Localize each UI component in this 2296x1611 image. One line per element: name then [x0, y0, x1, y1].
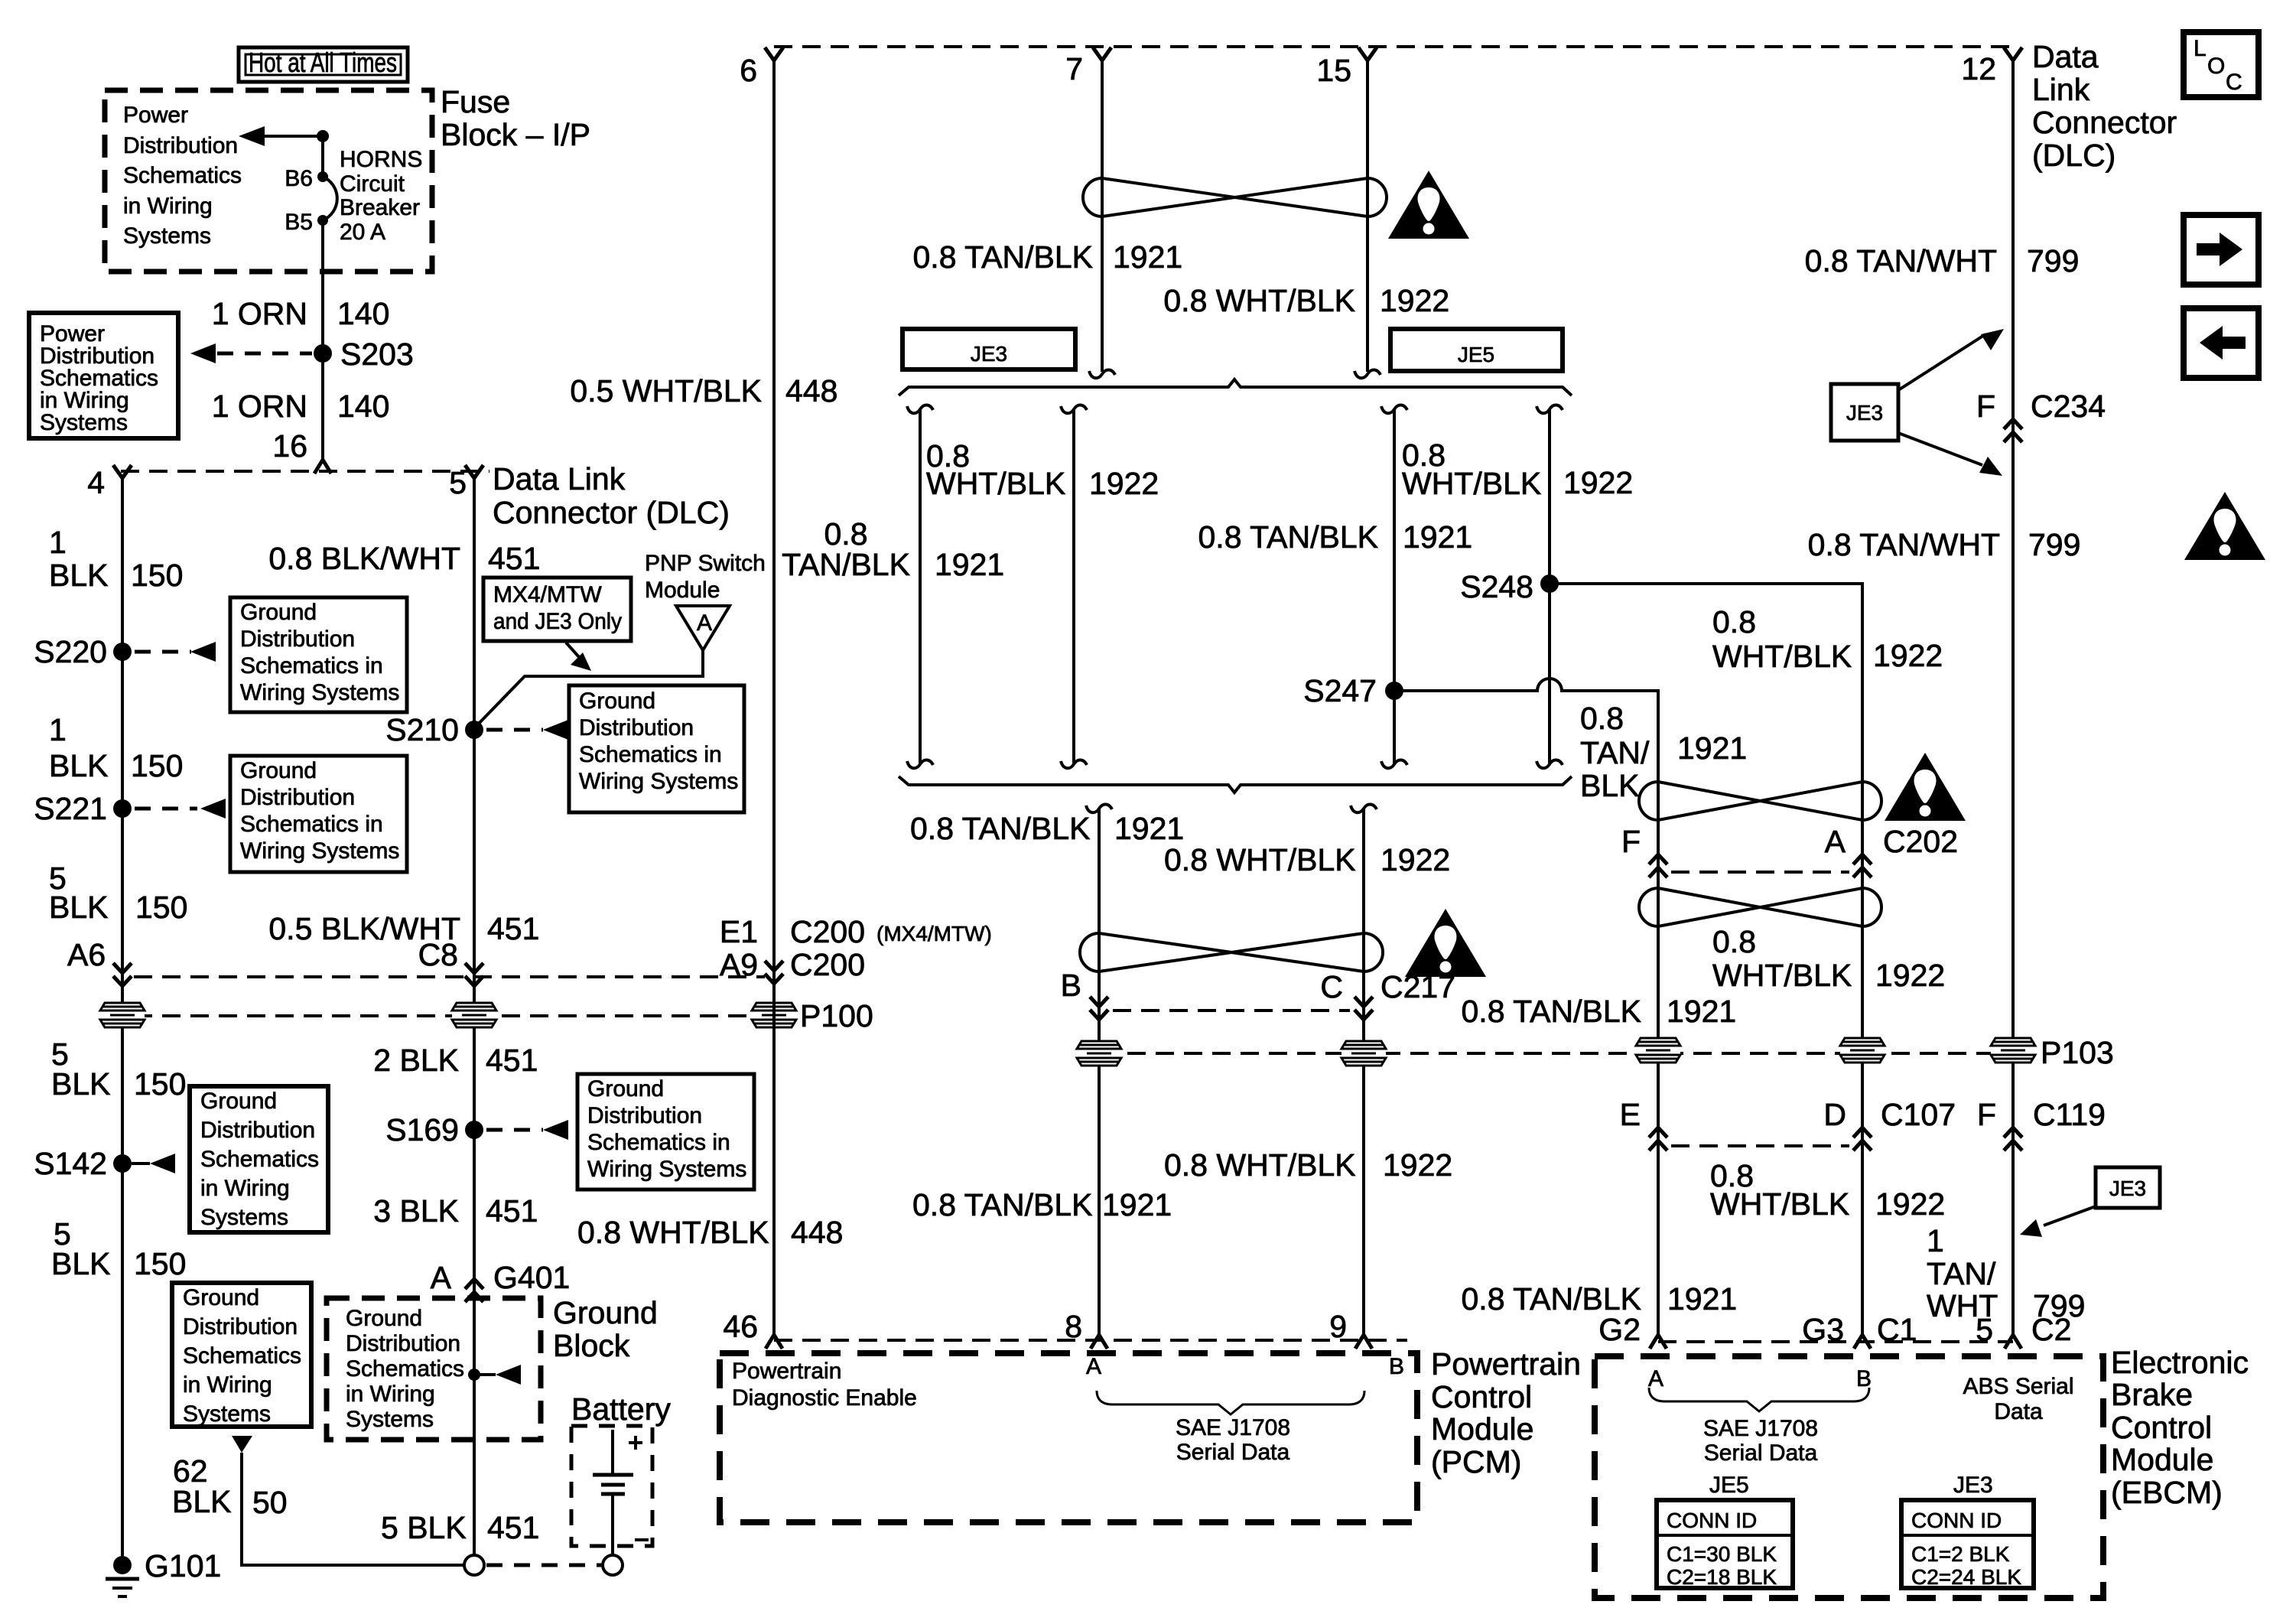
svg-text:799: 799 [2028, 527, 2080, 562]
splice code box JE3 (C234) [1831, 384, 1898, 441]
dashed reference from S220 [135, 642, 216, 662]
splice wire A (0.8 TAN/BLK 1921) [907, 405, 933, 768]
svg-text:46: 46 [723, 1309, 758, 1344]
splice S210 [385, 712, 483, 747]
wire 12 (799) down to EBCM C2 [2011, 60, 2015, 1335]
svg-text:JE5: JE5 [1709, 1473, 1749, 1498]
svg-text:Wiring Systems: Wiring Systems [240, 838, 399, 864]
svg-text:BLK: BLK [51, 1246, 111, 1281]
svg-text:Electronic: Electronic [2111, 1345, 2249, 1380]
svg-text:Systems: Systems [200, 1205, 288, 1230]
svg-text:Serial Data: Serial Data [1176, 1440, 1290, 1465]
svg-text:1922: 1922 [1383, 1147, 1452, 1183]
svg-text:1922: 1922 [1875, 1186, 1945, 1222]
twisted pair wires 8/9 [1080, 933, 1383, 971]
svg-text:0.8 TAN/BLK: 0.8 TAN/BLK [1462, 994, 1642, 1029]
warning triangle C202 [1885, 753, 1966, 821]
svg-text:in Wiring: in Wiring [200, 1176, 290, 1201]
svg-text:A9: A9 [720, 947, 758, 982]
svg-text:1922: 1922 [1380, 283, 1449, 318]
splice S247 [1303, 673, 1403, 708]
svg-text:A: A [697, 610, 712, 636]
svg-text:1 ORN: 1 ORN [212, 389, 307, 424]
svg-text:B: B [1389, 1354, 1404, 1379]
svg-text:A: A [431, 1260, 452, 1295]
svg-text:BLK: BLK [51, 1066, 111, 1102]
svg-text:A: A [1648, 1366, 1663, 1391]
wire 15 down to splice bus [1355, 60, 1381, 378]
svg-text:1922: 1922 [1563, 465, 1633, 500]
DLC lower boundary dashed line [134, 975, 765, 978]
pin G3 C1 EBCM [1802, 1312, 1917, 1349]
svg-text:0.8 WHT/BLK: 0.8 WHT/BLK [1164, 1147, 1356, 1183]
svg-text:in Wiring: in Wiring [346, 1382, 435, 1407]
svg-text:5: 5 [449, 465, 467, 500]
svg-text:Wiring Systems: Wiring Systems [240, 680, 399, 705]
svg-text:TAN/: TAN/ [1580, 735, 1650, 770]
reference arrow from S142 [132, 1154, 175, 1173]
svg-text:C202: C202 [1883, 824, 1958, 859]
svg-text:0.8 WHT/BLK: 0.8 WHT/BLK [577, 1215, 769, 1250]
svg-text:16: 16 [272, 428, 307, 464]
wire label 0.8 TAN/BLK 1921 (G2 lower) [1462, 1281, 1738, 1316]
warning triangle (top) [1388, 171, 1469, 239]
label ABS Serial Data [1963, 1374, 2073, 1424]
svg-text:12: 12 [1961, 51, 1996, 86]
svg-text:C1=30 BLK: C1=30 BLK [1667, 1542, 1777, 1566]
label Electronic Brake Control Module (EBCM) [2111, 1345, 2249, 1510]
svg-text:(DLC): (DLC) [2032, 138, 2116, 173]
svg-text:Data Link: Data Link [493, 461, 626, 496]
wire label 0.8 TAN/BLK 1921 (wire 8 lower) [912, 1187, 1172, 1222]
splice S220 [34, 634, 132, 669]
svg-text:Battery: Battery [571, 1391, 671, 1427]
splice S248 [1460, 569, 1559, 604]
dashed reference from S210 [486, 720, 568, 740]
svg-text:1921: 1921 [1114, 811, 1184, 846]
pin 12 connector [1961, 47, 2022, 86]
pin 15 connector [1316, 47, 1377, 88]
splice wire D (0.8 WHT/BLK 1922) [1537, 405, 1563, 768]
wire label 0.8 TAN/BLK 1921 (wire 7) [913, 239, 1183, 275]
note box Ground Distribution (S220) [230, 597, 407, 712]
pin 7 connector [1065, 47, 1111, 86]
wire label 1 ORN 140 (upper) [212, 296, 390, 331]
svg-text:1 ORN: 1 ORN [212, 296, 307, 331]
svg-text:E1: E1 [720, 914, 758, 949]
wire pin4 down to G101 [121, 478, 124, 1556]
svg-text:1922: 1922 [1089, 466, 1159, 501]
svg-text:Block – I/P: Block – I/P [441, 117, 590, 152]
label Powertrain Control Module (PCM) [1431, 1346, 1581, 1479]
svg-text:S210: S210 [385, 712, 459, 747]
svg-text:C119: C119 [2033, 1097, 2106, 1132]
svg-text:Module: Module [2111, 1442, 2213, 1477]
pin 16 male connector [314, 460, 331, 474]
EBCM serial data brace [1649, 1388, 1869, 1411]
svg-text:SAE J1708: SAE J1708 [1703, 1416, 1818, 1441]
splice S203 [314, 337, 414, 372]
note Power Distribution Schematics in Wiring Systems (fuse block) [123, 103, 242, 249]
wire S248 to G3 branch [1550, 584, 1862, 1335]
wire label 0.8 TAN/WHT 799 (middle) [1808, 527, 2081, 562]
wire label 0.8 TAN/WHT 799 (top) [1805, 243, 2080, 278]
ground G101 [106, 1548, 221, 1596]
label HORNS Circuit Breaker 20 A [340, 147, 422, 245]
wire label 5 BLK 150 (second) [51, 1037, 186, 1102]
pin A6 [67, 937, 132, 986]
svg-text:JE3: JE3 [971, 342, 1007, 366]
svg-text:WHT/BLK: WHT/BLK [1712, 958, 1852, 993]
svg-text:A: A [1825, 824, 1846, 859]
svg-text:ABS Serial: ABS Serial [1963, 1374, 2073, 1399]
LOC legend box [2184, 32, 2259, 97]
splice bundle brace (top) [899, 379, 1572, 395]
PCM dashed box [720, 1353, 1417, 1522]
wire to power distribution with arrow [239, 126, 323, 146]
grommet wire 9 [1342, 1041, 1386, 1066]
wire 8 from bundle to PCM [1086, 804, 1112, 1335]
svg-text:Distribution: Distribution [587, 1103, 702, 1128]
CONN ID table JE5 [1657, 1500, 1793, 1589]
C202 boundary dashed line [1671, 871, 1849, 874]
wire label 0.5 WHT/BLK 448 (wire 6) [570, 373, 837, 408]
svg-text:TAN/BLK: TAN/BLK [782, 547, 910, 582]
pin A G401 [431, 1260, 571, 1302]
svg-text:(EBCM): (EBCM) [2111, 1475, 2223, 1510]
svg-text:SAE J1708: SAE J1708 [1176, 1415, 1290, 1440]
grommet G2 wire [1636, 1038, 1680, 1063]
svg-text:JE3: JE3 [1953, 1473, 1993, 1498]
svg-text:E: E [1620, 1097, 1641, 1132]
splice code box JE5 [1390, 329, 1563, 371]
svg-text:Distribution: Distribution [123, 133, 238, 158]
svg-text:Connector (DLC): Connector (DLC) [493, 495, 730, 530]
svg-text:S247: S247 [1303, 673, 1377, 708]
svg-text:S220: S220 [34, 634, 107, 669]
svg-text:S221: S221 [34, 791, 107, 826]
svg-text:BLK: BLK [172, 1484, 232, 1519]
svg-text:0.8: 0.8 [1580, 701, 1624, 736]
svg-text:Ground: Ground [240, 758, 317, 783]
wire label 5 BLK 451 [381, 1510, 539, 1545]
svg-text:Systems: Systems [346, 1407, 434, 1432]
svg-text:Schematics: Schematics [123, 163, 242, 188]
arrow JE3 up to wire [1898, 329, 2004, 390]
svg-text:20 A: 20 A [340, 220, 385, 245]
wire 62 BLK 50 to ground junction [242, 1453, 464, 1565]
svg-text:and JE3 Only: and JE3 Only [493, 609, 622, 634]
svg-text:TAN/: TAN/ [1927, 1256, 1996, 1291]
svg-text:Schematics in: Schematics in [240, 812, 383, 837]
label Ground Block [553, 1295, 658, 1363]
circuit breaker HORNS 20A [317, 171, 337, 226]
warning triangle (right) [2184, 492, 2265, 560]
pin C8 [418, 937, 483, 986]
svg-text:G101: G101 [145, 1548, 221, 1583]
C107 boundary dashed line [1671, 1144, 1849, 1147]
svg-text:C200: C200 [790, 914, 865, 949]
twisted pair wires 7/15 [1083, 178, 1387, 216]
svg-text:799: 799 [2027, 243, 2079, 278]
svg-text:C107: C107 [1881, 1097, 1956, 1132]
svg-text:P103: P103 [2041, 1035, 2114, 1070]
svg-text:Diagnostic Enable: Diagnostic Enable [732, 1385, 917, 1411]
note box Ground Distribution (G101) [172, 1283, 311, 1427]
svg-text:1921: 1921 [1102, 1187, 1172, 1222]
wire label 0.8 TAN/BLK 1921 (G2 branch) [1580, 701, 1747, 803]
wire pin5 down to ground block [473, 478, 476, 1555]
pin 9 PCM [1329, 1309, 1372, 1349]
svg-text:150: 150 [131, 558, 183, 593]
arrow from option box [566, 643, 591, 671]
battery symbol [593, 1430, 649, 1555]
svg-text:WHT/BLK: WHT/BLK [1710, 1186, 1849, 1222]
warning triangle C217 [1405, 909, 1486, 977]
svg-text:WHT/BLK: WHT/BLK [926, 466, 1065, 501]
DLC top boundary dashed line [774, 45, 2013, 48]
note Ground Distribution (ground block) [346, 1306, 464, 1432]
reference triangle below box [232, 1436, 252, 1453]
wire label 1 TAN/WHT 799 (lower) [1927, 1223, 2085, 1323]
svg-text:1: 1 [49, 712, 67, 747]
svg-text:S169: S169 [385, 1112, 459, 1147]
svg-text:1921: 1921 [1677, 731, 1747, 766]
wire label 0.8 WHT/BLK 448 (wire 6 lower) [577, 1215, 843, 1250]
svg-text:Power: Power [123, 103, 188, 128]
label SAE J1708 Serial Data (PCM) [1176, 1415, 1290, 1465]
grommet P100 [752, 998, 873, 1033]
svg-text:140: 140 [337, 296, 389, 331]
svg-text:150: 150 [134, 1066, 186, 1102]
svg-text:150: 150 [135, 890, 187, 925]
svg-text:50: 50 [252, 1485, 288, 1520]
svg-text:G401: G401 [493, 1260, 570, 1295]
svg-text:Block: Block [553, 1328, 630, 1363]
svg-text:Powertrain: Powertrain [732, 1359, 841, 1384]
svg-text:D: D [1823, 1097, 1846, 1132]
svg-text:BLK: BLK [49, 748, 109, 783]
svg-text:Circuit: Circuit [340, 171, 405, 197]
svg-text:6: 6 [740, 53, 757, 88]
svg-text:2 BLK: 2 BLK [373, 1043, 459, 1078]
svg-text:Data: Data [2032, 39, 2099, 74]
svg-text:Module: Module [645, 578, 720, 603]
note box Ground Distribution (S210) [569, 685, 744, 812]
svg-text:4: 4 [87, 465, 105, 500]
wire label 0.8 TAN/BLK 1921 (splice wire C) [1198, 519, 1473, 555]
svg-text:0.8 TAN/WHT: 0.8 TAN/WHT [1805, 243, 1997, 278]
svg-text:0.8: 0.8 [1712, 924, 1756, 959]
svg-text:(PCM): (PCM) [1431, 1444, 1521, 1479]
pin A C202 [1825, 824, 1958, 877]
svg-text:1922: 1922 [1873, 638, 1943, 673]
svg-text:1921: 1921 [1667, 994, 1736, 1029]
wire label 0.5 BLK/WHT 451 [268, 911, 539, 946]
svg-text:0.5 WHT/BLK: 0.5 WHT/BLK [570, 373, 762, 408]
svg-text:Link: Link [2032, 72, 2090, 107]
wire PNP to S210 [474, 650, 703, 728]
wire label 0.8 TAN/BLK 1921 (wire 8) [910, 811, 1184, 846]
svg-text:S203: S203 [340, 337, 414, 372]
svg-text:BLK: BLK [49, 890, 109, 925]
wire label 0.8 WHT/BLK 1922 (splice wire D) [1402, 438, 1633, 501]
svg-text:B6: B6 [285, 166, 313, 191]
svg-text:in Wiring: in Wiring [123, 194, 213, 219]
EBCM dashed box [1595, 1356, 2103, 1598]
svg-text:448: 448 [791, 1215, 843, 1250]
wire junction to B6 [321, 136, 324, 177]
svg-text:Schematics in: Schematics in [579, 742, 722, 767]
svg-text:Ground: Ground [579, 688, 655, 714]
svg-text:Distribution: Distribution [200, 1118, 315, 1143]
svg-text:0.8 BLK/WHT: 0.8 BLK/WHT [268, 541, 460, 576]
svg-text:15: 15 [1316, 53, 1351, 88]
left arrow legend box [2184, 308, 2259, 378]
wire label 0.8 WHT/BLK 1922 (G3 lower) [1710, 1158, 1945, 1222]
svg-text:5 BLK: 5 BLK [381, 1510, 467, 1545]
svg-text:Schematics in: Schematics in [587, 1130, 730, 1155]
svg-text:1: 1 [49, 525, 67, 560]
pin G2 EBCM [1598, 1312, 1667, 1349]
splice wire B (0.8 WHT/BLK 1922) [1061, 405, 1087, 768]
svg-text:(MX4/MTW): (MX4/MTW) [876, 922, 992, 945]
PCM internal pins A B [1086, 1354, 1404, 1379]
PCM boundary thin dashed line [774, 1339, 1407, 1342]
svg-text:Breaker: Breaker [340, 195, 420, 220]
wire label 3 BLK 451 [373, 1193, 538, 1229]
svg-text:Schematics: Schematics [346, 1356, 464, 1382]
svg-text:Schematics in: Schematics in [240, 653, 383, 679]
wire label 0.8 WHT/BLK 1922 (wire 15) [1163, 283, 1449, 318]
svg-text:0.8 TAN/BLK: 0.8 TAN/BLK [912, 1187, 1093, 1222]
splice S169 [385, 1112, 483, 1147]
svg-text:S248: S248 [1460, 569, 1533, 604]
svg-text:F: F [1976, 389, 1995, 424]
svg-text:451: 451 [487, 1510, 539, 1545]
wire B5 down to DLC pin 16 [321, 220, 324, 462]
splice code box JE3 [902, 329, 1075, 369]
svg-text:BLK: BLK [49, 558, 109, 593]
pin E C107 [1620, 1097, 1667, 1150]
svg-text:Distribution: Distribution [183, 1314, 298, 1339]
svg-text:Systems: Systems [40, 410, 128, 435]
svg-text:Ground: Ground [240, 600, 317, 625]
CONN ID table JE3 [1901, 1500, 2034, 1589]
wire label 0.8 WHT/BLK 1922 (wire 9 lower) [1164, 1147, 1452, 1183]
svg-text:451: 451 [488, 541, 540, 576]
svg-text:1921: 1921 [1403, 519, 1472, 555]
wire label 0.8 WHT/BLK 1922 (G3 branch) [1712, 604, 1943, 674]
wire label 0.8 WHT/BLK 1922 (below C202) [1712, 924, 1945, 993]
svg-text:C8: C8 [418, 937, 458, 972]
svg-text:MX4/MTW: MX4/MTW [493, 582, 602, 607]
wire 9 from bundle to PCM [1351, 804, 1377, 1335]
svg-text:WHT/BLK: WHT/BLK [1712, 639, 1852, 674]
svg-text:Ground: Ground [587, 1076, 664, 1102]
svg-text:Distribution: Distribution [240, 785, 355, 810]
svg-text:451: 451 [486, 1043, 538, 1078]
svg-text:BLK: BLK [1580, 768, 1640, 803]
pin F C119 [1977, 1097, 2106, 1150]
svg-text:Schematics: Schematics [183, 1343, 301, 1369]
label Fuse Block - I/P [441, 84, 590, 152]
pin E1/A9 C200 [720, 914, 992, 984]
splice wire C (0.8 TAN/BLK 1921) [1381, 405, 1407, 768]
label Data Link Connector (DLC) [493, 461, 730, 530]
svg-text:Distribution: Distribution [240, 626, 355, 652]
svg-text:Schematics: Schematics [200, 1147, 319, 1172]
svg-text:WHT/BLK: WHT/BLK [1402, 466, 1541, 501]
right arrow legend box [2184, 215, 2259, 285]
junction in ground block with arrow [468, 1365, 521, 1385]
label SAE J1708 Serial Data (EBCM) [1703, 1416, 1818, 1466]
pin 5 connector [449, 465, 483, 500]
svg-text:Control: Control [1431, 1379, 1532, 1414]
svg-text:Connector: Connector [2032, 105, 2177, 140]
svg-text:0.8 WHT/BLK: 0.8 WHT/BLK [1164, 842, 1356, 877]
svg-text:Distribution: Distribution [346, 1331, 460, 1356]
grommet wire4 [100, 1003, 145, 1027]
wire 7 down to splice bus [1089, 60, 1115, 378]
svg-text:0.8 TAN/BLK: 0.8 TAN/BLK [910, 811, 1091, 846]
pin 8 PCM [1065, 1309, 1107, 1349]
dashed reference wire from S203 [190, 343, 312, 363]
svg-text:0.8 WHT/BLK: 0.8 WHT/BLK [1163, 283, 1355, 318]
wire label 0.8 WHT/BLK 1922 (wire 9) [1164, 842, 1450, 877]
wire label 2 BLK 451 [373, 1043, 538, 1078]
svg-text:0.8: 0.8 [1712, 604, 1756, 640]
battery negative open node [603, 1555, 623, 1575]
pass-through dashed line P103 row [1099, 1052, 2013, 1055]
splice S221 [34, 791, 132, 826]
wire label 1 BLK 150 [49, 525, 183, 593]
svg-text:B: B [1061, 968, 1081, 1003]
svg-text:140: 140 [337, 389, 389, 424]
svg-text:PNP Switch: PNP Switch [645, 551, 766, 576]
svg-text:Brake: Brake [2111, 1377, 2193, 1412]
svg-text:C1=2 BLK: C1=2 BLK [1911, 1542, 2010, 1566]
svg-text:L: L [2194, 36, 2207, 61]
pass-through dashed line P100 [134, 1014, 753, 1017]
C217 boundary dashed line [1113, 1009, 1350, 1012]
svg-text:A: A [1086, 1354, 1101, 1379]
svg-text:G2: G2 [1598, 1312, 1641, 1347]
svg-text:C200: C200 [790, 947, 865, 982]
svg-text:C: C [2226, 70, 2242, 95]
label Powertrain Diagnostic Enable [732, 1359, 917, 1411]
svg-text:Distribution: Distribution [579, 715, 694, 740]
pin F C234 [1976, 389, 2106, 442]
wire label 0.8 BLK/WHT 451 [268, 541, 540, 576]
wire label 62 BLK 50 [172, 1453, 288, 1520]
svg-text:Ground: Ground [346, 1306, 422, 1331]
pin B (C217) [1061, 968, 1108, 1020]
wire label 1 BLK 150 (second) [49, 712, 183, 783]
pin 4 connector [87, 465, 132, 500]
svg-text:O: O [2207, 54, 2225, 79]
dashed reference from S169 [486, 1120, 568, 1140]
arrow JE3 down to wire [1898, 433, 2002, 476]
svg-text:1922: 1922 [1381, 842, 1450, 877]
svg-text:1921: 1921 [1667, 1281, 1737, 1316]
svg-text:0.8 TAN/WHT: 0.8 TAN/WHT [1808, 527, 2000, 562]
arrow JE3 to wire 799 [2020, 1206, 2096, 1237]
grommet G3 wire [1840, 1038, 1885, 1063]
pin 46 PCM [723, 1309, 782, 1349]
pin D C107 [1823, 1097, 1956, 1150]
wire label 0.8 TAN/BLK 1921 (splice wire A) [782, 516, 1004, 582]
